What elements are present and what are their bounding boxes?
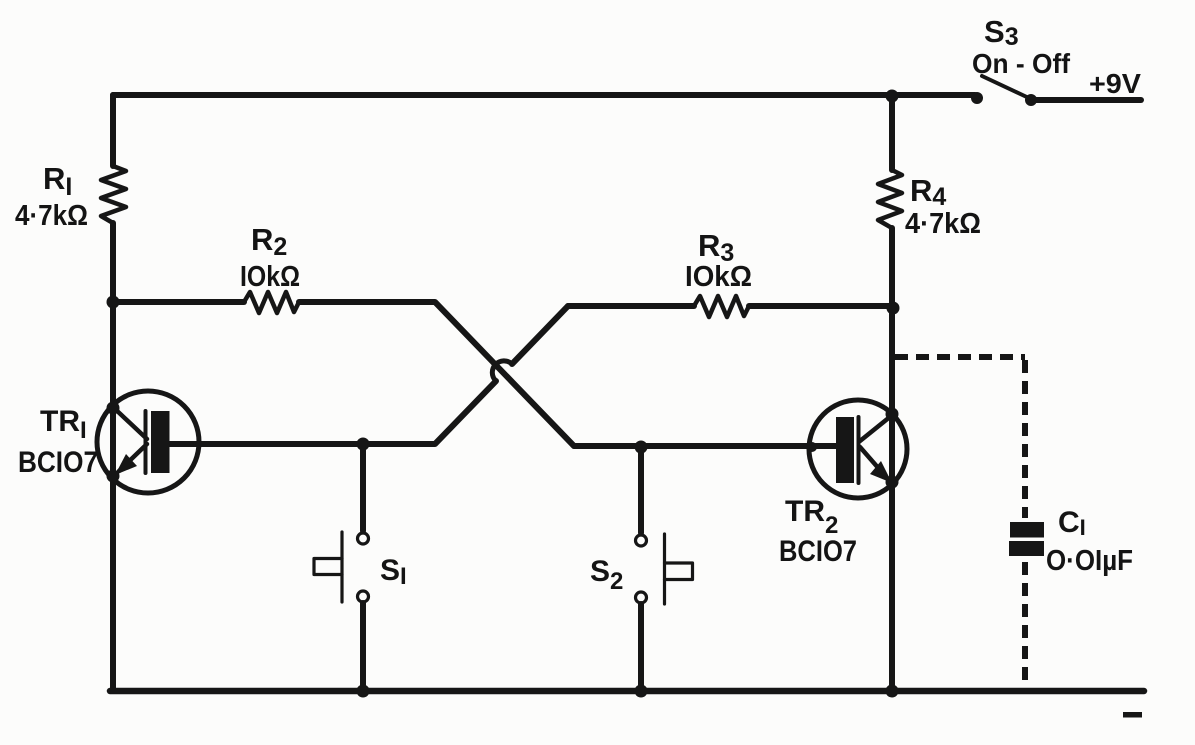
wire top supply rail	[113, 92, 975, 98]
svg-text:BCIO7: BCIO7	[18, 446, 98, 479]
switch S3	[971, 76, 1037, 106]
svg-text:4·7kΩ: 4·7kΩ	[15, 200, 88, 232]
wire S3 to +9V terminal	[1031, 97, 1141, 103]
node R3 / right rail junction	[887, 302, 900, 315]
svg-text:IOkΩ: IOkΩ	[685, 261, 752, 293]
resistor R4	[878, 170, 902, 228]
svg-text:BCIO7: BCIO7	[779, 535, 857, 568]
wire left rail	[110, 95, 116, 691]
svg-text:4·7kΩ: 4·7kΩ	[905, 208, 981, 240]
wire R3 to right rail	[749, 303, 892, 309]
transistor TR2	[807, 400, 907, 498]
capacitor C1	[1009, 522, 1044, 556]
wire TR1 base to cross (with hop)	[169, 381, 496, 444]
node S2 tap	[635, 441, 648, 454]
wire dashed C1 top branch	[895, 354, 1025, 360]
resistor R2	[244, 292, 299, 313]
transistor TR1	[97, 391, 199, 493]
svg-text:IOkΩ: IOkΩ	[240, 261, 300, 293]
svg-text:RI: RI	[43, 161, 72, 201]
node TR1 collector on left rail	[107, 402, 120, 415]
svg-text:R2: R2	[251, 222, 287, 261]
resistor R1	[101, 166, 126, 223]
wire right rail	[889, 96, 895, 691]
node TR1 emitter on left rail	[107, 470, 120, 483]
battery minus terminal mark	[1123, 712, 1142, 718]
svg-text:CI: CI	[1058, 506, 1086, 540]
svg-text:On - Off: On - Off	[972, 48, 1071, 79]
svg-text:SI: SI	[380, 554, 407, 590]
wire bottom rail	[110, 688, 1144, 695]
svg-text:O·OIµF: O·OIµF	[1046, 545, 1133, 577]
svg-text:TRI: TRI	[40, 405, 87, 444]
switch S2	[636, 447, 693, 691]
svg-text:TR2: TR2	[785, 495, 838, 539]
node top rail / right rail tee	[886, 90, 899, 103]
node S2 / bottom rail	[635, 685, 648, 698]
switch S1	[314, 444, 369, 691]
wire dashed C1 vertical branch	[1022, 360, 1028, 518]
wire R2 left segment	[113, 299, 244, 305]
node TR2 emitter on right rail	[886, 476, 899, 489]
svg-text:S3: S3	[984, 14, 1019, 51]
node S1 / bottom rail	[357, 685, 370, 698]
svg-text:R4: R4	[910, 173, 946, 211]
svg-text:S2: S2	[590, 555, 623, 595]
svg-text:+9V: +9V	[1089, 68, 1141, 99]
node right rail / bottom rail	[886, 685, 899, 698]
node TR2 collector on right rail	[886, 408, 899, 421]
wire R2 to cross then to TR2 base	[299, 302, 836, 446]
resistor R3	[694, 296, 749, 317]
node R2 tap on left rail	[107, 296, 120, 309]
node S1 tap	[357, 438, 370, 451]
wire R3 left segment	[568, 303, 694, 309]
